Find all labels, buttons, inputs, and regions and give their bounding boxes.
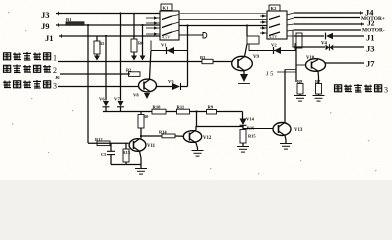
svg-text:J7: J7 xyxy=(366,59,375,69)
wire J5 to V10 base column xyxy=(277,71,296,73)
svg-text:1: 1 xyxy=(53,54,57,63)
resistor R3 xyxy=(200,55,213,64)
wire y30 xyxy=(294,29,361,31)
svg-text:V7: V7 xyxy=(114,96,120,101)
svg-text:V6: V6 xyxy=(99,96,105,101)
diode V7 xyxy=(114,96,124,111)
wire vertical x142.5 from J9 wire with arrow to sensor1 wire xyxy=(140,24,146,61)
svg-text:J 5: J 5 xyxy=(266,71,273,78)
wire vertical from J9 node at x88 down to V11 base wire xyxy=(87,25,89,143)
wire V10 to J7 xyxy=(326,62,365,64)
wire corner MOTOR- to J3 wire xyxy=(293,30,295,47)
V8 emitter arrow to ground xyxy=(144,93,150,99)
resistor R8 (vertical) xyxy=(297,79,303,94)
svg-text:J9: J9 xyxy=(41,21,50,31)
svg-text:V5: V5 xyxy=(168,79,174,84)
ground (R8) xyxy=(294,94,306,101)
wire V12 collector riser to bias rail xyxy=(196,112,198,127)
svg-text:V2: V2 xyxy=(271,43,277,48)
svg-text:J2: J2 xyxy=(367,19,375,28)
svg-text:R1: R1 xyxy=(66,17,72,22)
resistor R13 (vertical) xyxy=(123,143,131,164)
relay K2 box xyxy=(260,5,294,39)
svg-text:J1: J1 xyxy=(366,33,375,43)
ground (V11) xyxy=(135,165,147,175)
diode V2 flyback under relay K2 xyxy=(249,43,295,54)
wire V11 emitter down to ground rail xyxy=(140,151,142,164)
wire from rail down at x242.5 xyxy=(242,112,244,119)
svg-text:4.5V: 4.5V xyxy=(269,34,277,39)
wire V13 base xyxy=(243,128,274,130)
svg-text:J1: J1 xyxy=(45,33,54,43)
transistor V13 xyxy=(273,122,303,135)
svg-text:V13: V13 xyxy=(294,128,303,133)
transistor V12 xyxy=(183,130,212,143)
wire vertical x120.5 from J3 wire down to diode V7 xyxy=(120,14,122,101)
resistor R2 xyxy=(126,68,140,77)
wire bias rail y111.5 xyxy=(103,111,243,113)
resistor R12 xyxy=(95,137,110,146)
svg-text:4.5V: 4.5V xyxy=(162,35,170,40)
svg-text:R11: R11 xyxy=(177,104,185,109)
label 位置传感器 2 (position sensor 2) xyxy=(4,65,58,76)
wire V12 collector up and right xyxy=(196,127,243,130)
wire y17.5 xyxy=(294,17,360,19)
relay K1 box xyxy=(146,4,179,40)
svg-text:R15: R15 xyxy=(248,134,256,139)
wire y36 to J1 xyxy=(294,35,324,37)
wire stub with connector D symbol xyxy=(179,33,207,39)
resistor R5 (vertical, J1 wire to sensor1 wire) xyxy=(94,36,105,61)
wire MOTOR rail y13 xyxy=(294,12,363,14)
wire V11 base from x88 column xyxy=(88,142,129,144)
transistor V10 xyxy=(296,56,326,71)
capacitor C5 xyxy=(101,143,115,164)
diode V6 xyxy=(99,96,110,111)
svg-text:R13: R13 xyxy=(123,150,131,155)
wire vertical x296 supply column xyxy=(295,48,297,82)
wire V13 collector up xyxy=(284,70,286,123)
transistor V11 xyxy=(129,139,155,152)
svg-text:K2: K2 xyxy=(271,6,278,11)
ground (R15) xyxy=(237,147,249,153)
svg-text:R10: R10 xyxy=(153,104,162,109)
ground (R7) xyxy=(313,94,325,101)
svg-text:V9: V9 xyxy=(253,55,259,60)
label 位置传感器 3 (position sensor 3) xyxy=(3,80,57,91)
wire vertical x106 from J1 wire down to diode V6 xyxy=(105,36,107,101)
wire J3 horizontal xyxy=(56,13,160,15)
wire V8 collector up to K1 coil xyxy=(150,51,152,80)
svg-text:C5: C5 xyxy=(101,152,107,157)
wire V9 collector chain up to relay K2 xyxy=(245,24,260,56)
svg-text:R9: R9 xyxy=(208,104,214,109)
svg-text:V12: V12 xyxy=(203,136,212,141)
wire sensor2 horizontal to R2 xyxy=(60,73,130,75)
wire bottom rail xyxy=(111,164,141,166)
diode V3 xyxy=(294,44,364,50)
label 位置传感器 3 (right) xyxy=(335,84,389,95)
V9 emitter arrow / ground xyxy=(238,71,250,84)
svg-text:K1: K1 xyxy=(163,6,170,11)
label 位置传感器 1 (position sensor 1) xyxy=(4,52,58,63)
resistor R7 (vertical) xyxy=(315,71,322,94)
resistor R0 (vertical) xyxy=(138,112,149,139)
svg-text:V11: V11 xyxy=(147,144,156,149)
svg-text:V8: V8 xyxy=(133,93,139,98)
capacitor box component xyxy=(296,33,302,48)
wire between relays y25.5 xyxy=(179,25,267,27)
diode V1 flyback under relay K1 xyxy=(151,41,188,55)
wire vertical x187.5 sensor net xyxy=(187,26,189,87)
wire J1 horizontal xyxy=(59,35,160,37)
resistor R9 xyxy=(207,104,217,114)
svg-text:R6: R6 xyxy=(138,41,144,46)
resistor R10 xyxy=(152,104,166,114)
resistor R1 xyxy=(66,17,84,25)
wire between relays y13.5 xyxy=(179,13,267,15)
svg-text:R16: R16 xyxy=(247,126,256,131)
transistor V9 xyxy=(232,55,260,71)
svg-text:J6: J6 xyxy=(55,75,60,80)
resistor R6 (vertical from J3 wire, arrow to sensor1 wire) xyxy=(131,14,144,61)
paper background xyxy=(0,0,392,180)
ground (V13) xyxy=(280,136,292,150)
svg-text:J3: J3 xyxy=(41,10,50,20)
wire sensor3 horizontal to V8 xyxy=(58,86,139,88)
svg-text:3: 3 xyxy=(53,82,57,91)
resistor R15 (vertical) xyxy=(240,130,256,147)
diode V5 xyxy=(157,79,188,90)
resistor R11 xyxy=(177,104,190,114)
ground (V12) xyxy=(192,143,204,156)
transistor V8 xyxy=(133,79,157,97)
wire sensor1 horizontal to V9 base xyxy=(58,61,232,63)
svg-text:R5: R5 xyxy=(99,41,105,46)
resistor R14 xyxy=(140,130,184,138)
wire y24 xyxy=(294,23,364,25)
svg-text:2: 2 xyxy=(53,66,57,75)
svg-text:3: 3 xyxy=(384,86,388,95)
svg-text:J3: J3 xyxy=(366,44,375,54)
wire J9 horizontal xyxy=(56,24,160,26)
wire between relays y19.5 xyxy=(179,19,267,21)
wire V13 collector join xyxy=(285,69,296,71)
diode V14 xyxy=(240,117,255,133)
svg-text:V14: V14 xyxy=(246,117,255,122)
svg-text:V1: V1 xyxy=(161,42,167,47)
diode V4 xyxy=(321,33,333,47)
